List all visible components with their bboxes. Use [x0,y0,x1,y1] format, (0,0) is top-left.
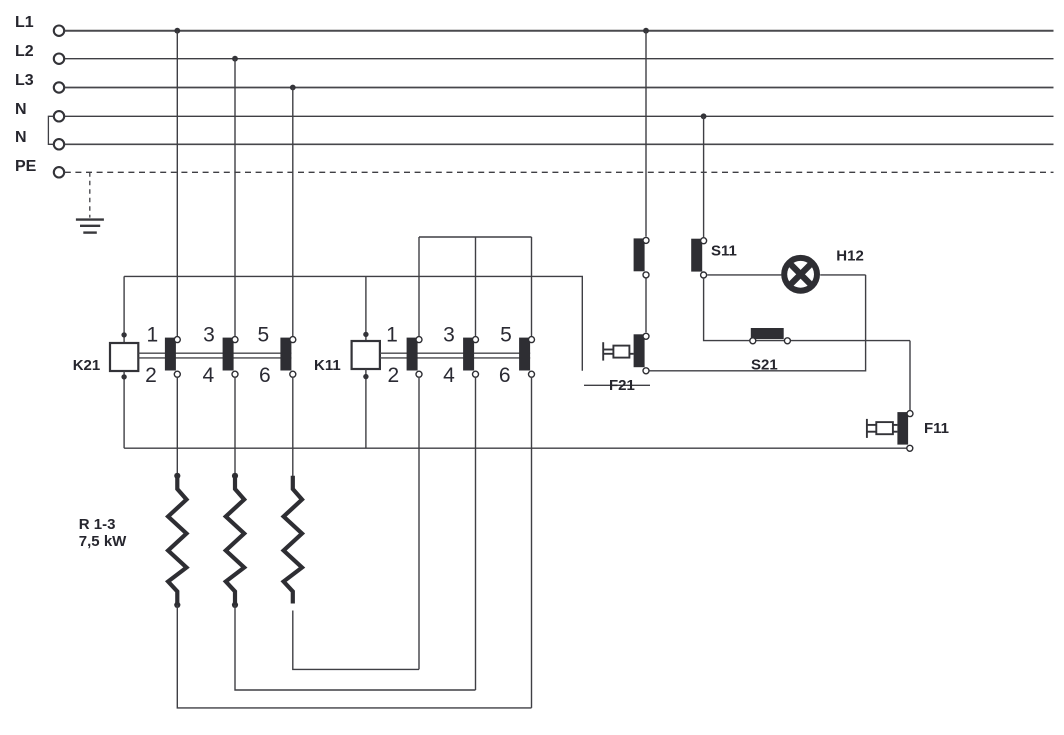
coil K11 top pin dot [363,332,368,337]
terminal N lower [54,139,64,149]
svg-text:R 1-3: R 1-3 [79,516,116,533]
wire bus L2 [65,58,1054,60]
wire S11 to lamp H12 [707,274,781,276]
wire N-N link bracket [48,116,53,144]
wire L1 drop to main switch [645,31,647,237]
wire coil feed line [124,276,582,370]
svg-text:5: 5 [500,324,512,347]
svg-text:F21: F21 [609,377,635,394]
svg-text:1: 1 [386,324,398,347]
svg-text:K11: K11 [314,357,341,374]
label line F21 [584,384,650,386]
coil K11 wire from feed line [365,276,367,341]
svg-text:N: N [15,101,27,118]
wire H12 to corner [820,274,865,276]
coil K21 bottom wire to return line [123,371,125,448]
node L2 tap to K21 pole 3 [232,56,238,62]
svg-text:S21: S21 [751,357,778,374]
wire K21 contact 2 to resistor R1 [176,378,178,476]
svg-text:4: 4 [443,364,455,387]
coil K11 box [352,341,380,369]
svg-text:2: 2 [387,364,399,387]
K21 mechanical linkage (double line) [138,353,291,358]
coil K11 bottom wire to return line [365,369,367,448]
wire R3 bottom to K11 pole 2 [293,611,419,670]
svg-text:L2: L2 [15,43,34,60]
terminal L2 [54,54,64,64]
svg-text:K21: K21 [73,357,101,374]
thermal cutout F21 contact [634,333,649,374]
svg-text:6: 6 [499,364,511,387]
wire switch to F21 [645,279,647,333]
wire star bridge above K11 [419,236,532,238]
node L3 tap to K21 pole 5 [290,85,296,91]
wire coil return line (to F11) [124,447,907,449]
svg-text:5: 5 [258,324,270,347]
svg-text:1: 1 [147,324,159,347]
wire S21 through-line [749,340,910,342]
contact K11 pole 5-6 [519,337,534,378]
wire bus N upper [65,115,1054,117]
svg-text:6: 6 [259,364,271,387]
node N tap to S11 branch [701,113,707,119]
wire R2 bottom to K11 pole 4 [235,605,476,690]
resistor R2 [226,473,244,608]
wire K11 contact 2 down to R3 return [418,378,420,670]
thermal cutout F11 contact [897,411,913,452]
switch contact S11 [691,238,706,278]
svg-text:S11: S11 [711,243,737,260]
coil K21 box [110,343,138,371]
svg-text:2: 2 [145,364,157,387]
svg-text:N: N [15,129,27,146]
svg-text:L1: L1 [15,14,34,31]
wire bus PE (dashed) [65,171,1054,173]
ground [76,220,104,233]
K11 mechanical linkage (double line) [380,353,530,358]
contact K21 pole 1-2 [165,337,180,378]
svg-text:PE: PE [15,158,37,175]
terminal L3 [54,82,64,92]
wire L2 drop to K21 contact 3 [234,59,236,337]
contact K11 pole 3-4 [463,337,478,378]
contact K21 pole 3-4 [223,337,238,378]
node L1 tap to control branch [643,28,649,34]
terminal N upper [54,111,64,121]
contact K21 pole 5-6 [280,337,295,378]
pushbutton S21 [750,328,791,344]
coil K21 bottom pin dot [121,374,126,379]
terminal PE [54,167,64,177]
node L1 tap to K21 pole 1 [174,28,180,34]
svg-text:3: 3 [203,324,215,347]
wire K11 contact 6 down to R1 return [531,378,533,708]
wire bridge drop to K11 contact 1 [418,237,420,336]
wire L1 drop to K21 contact 1 [176,31,178,337]
wire bus N lower [65,143,1054,145]
wire K11 contact 4 down to R2 return [475,378,477,690]
wire bridge drop to K11 contact 3 [475,237,477,336]
wire R1 bottom to K11 pole 6 [177,605,531,708]
svg-text:F11: F11 [924,420,949,437]
wire bridge drop to K11 contact 5 [531,237,533,336]
lamp H12 [784,258,817,291]
F21 actuator [603,342,633,360]
coil K21 top pin dot [121,332,126,337]
svg-text:4: 4 [203,364,215,387]
wire K21 contact 4 to resistor R2 [234,378,236,476]
resistor R1 [168,473,186,608]
wire S21 to F11 [909,341,911,411]
wire K21 contact 6 to resistor R3 [292,378,294,476]
F11 actuator [867,419,898,438]
wire bus L1 [65,30,1054,32]
wire bus L3 [65,87,1054,89]
wire F21 to H12 branch (right then up) [650,275,866,371]
wire S11 down to S21 [704,279,750,341]
resistor R3 [284,476,302,604]
contact K11 pole 1-2 [407,337,422,378]
wire N drop to S11 [703,116,705,237]
svg-text:H12: H12 [836,248,864,265]
svg-text:3: 3 [443,324,455,347]
svg-text:L3: L3 [15,72,34,89]
wire L3 drop to K21 contact 5 [292,88,294,337]
switch contact (L1 pole) [634,237,649,278]
svg-text:7,5 kW: 7,5 kW [79,533,127,550]
wire PE earth drop (dashed) [89,172,91,217]
coil K21 wire from feed line [123,276,125,343]
coil K11 bottom pin dot [363,374,368,379]
terminal L1 [54,26,64,36]
